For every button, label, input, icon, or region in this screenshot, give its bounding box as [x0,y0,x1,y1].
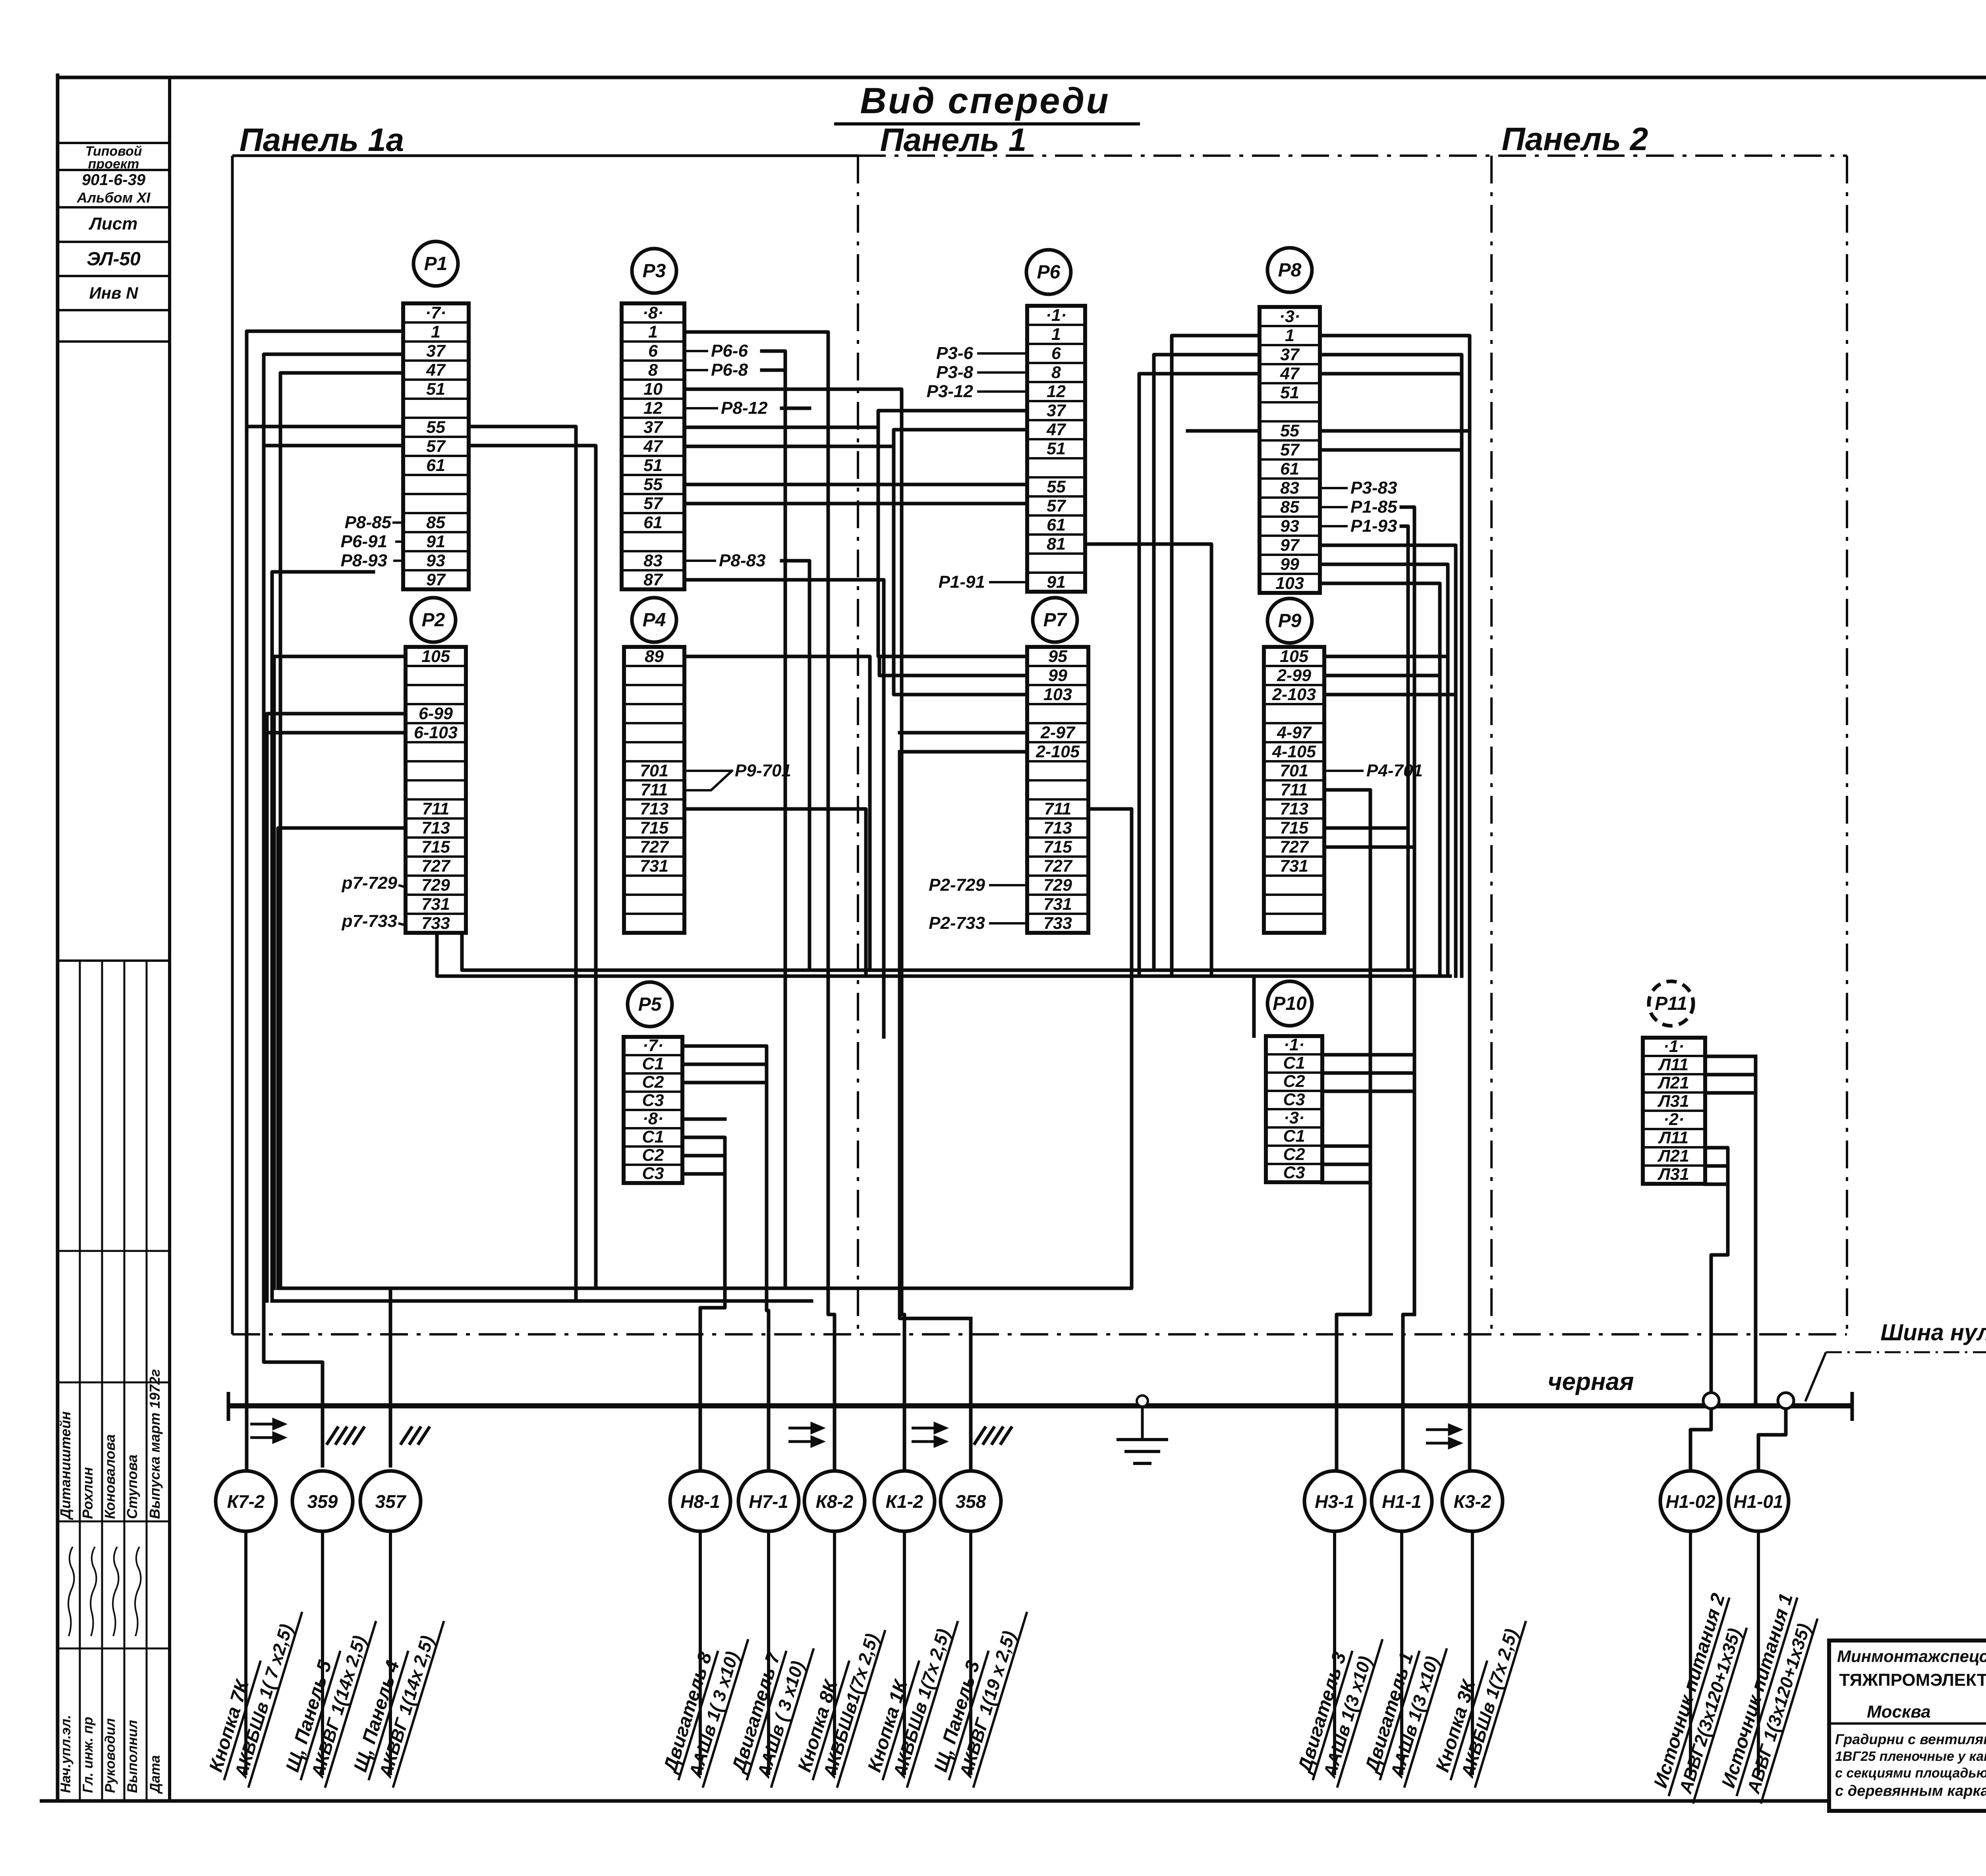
svg-text:8: 8 [1051,363,1061,382]
svg-text:99: 99 [1280,555,1299,574]
svg-text:711: 711 [1281,780,1308,799]
svg-text:Р6-91: Р6-91 [341,532,387,551]
svg-text:Р8-93: Р8-93 [341,551,387,570]
wire Р2 6-99 run [267,714,406,1301]
net label Р3-83 [1320,478,1397,498]
svg-text:1: 1 [1285,326,1294,345]
wire Р2-105 run [274,656,406,1288]
svg-text:733: 733 [1043,914,1072,933]
svg-text:713: 713 [1280,799,1308,818]
cable tail Н1-1 [1400,1531,1403,1775]
svg-text:81: 81 [1047,535,1066,554]
svg-text:Нач.упл.эл.: Нач.упл.эл. [58,1715,73,1793]
wire Р9 2-99 [1324,674,1440,677]
svg-text:Н1-01: Н1-01 [1733,1491,1783,1512]
wire 358 jog [900,752,971,1318]
net label Р1-85 [1320,497,1397,517]
cable tail К7-2 [244,1531,247,1775]
cable label 358 [928,1598,1027,1787]
svg-text:713: 713 [640,799,668,818]
designator circle Р9 [1267,598,1312,643]
panel 2 right boundary [1846,156,1848,1334]
svg-text:Л31: Л31 [1657,1092,1689,1111]
svg-text:Р11: Р11 [1655,993,1687,1014]
svg-text:Р5: Р5 [638,994,662,1015]
wire Р3-55 [684,483,1027,486]
svg-text:Л11: Л11 [1658,1055,1688,1074]
cable circle Н1-01 [1728,1471,1789,1531]
wire Р4-89 run [684,656,870,970]
svg-text:·7·: ·7· [643,1036,664,1055]
wire Р5-8 to Н8-1 [682,1137,725,1471]
title block [1829,1641,1986,1811]
cable tail Н7-1 [767,1531,770,1775]
svg-text:С2: С2 [1283,1145,1305,1164]
cable label К8-2 [792,1616,885,1787]
svg-text:2-99: 2-99 [1277,666,1311,685]
svg-text:51: 51 [1280,383,1299,402]
svg-text:Р7: Р7 [1043,610,1068,631]
svg-text:6: 6 [648,342,658,361]
cable circle 357 [360,1471,421,1531]
svg-text:Выпуска март 1972г: Выпуска март 1972г [147,1369,163,1519]
cable tail Н8-1 [699,1531,702,1775]
net label Р8-12 [684,398,768,418]
svg-text:с секциями площадью 16кв, М.: с секциями площадью 16кв, М. [1835,1766,1986,1781]
svg-text:2-105: 2-105 [1036,742,1080,761]
svg-text:Выполнил: Выполнил [125,1720,140,1793]
wire Р5 upper С1 [682,1063,767,1066]
svg-text:Р2-733: Р2-733 [929,913,985,933]
wire Р3-57 [684,502,1027,506]
wire Р8-37 drop [1320,355,1462,976]
cable circle 359 [292,1471,353,1531]
svg-text:10: 10 [643,380,663,399]
wire Р5-7 to Н7-1 [682,1046,769,1471]
svg-text:711: 711 [641,780,668,799]
svg-text:711: 711 [1044,799,1072,818]
svg-text:4-97: 4-97 [1277,723,1312,742]
svg-text:Л21: Л21 [1657,1073,1689,1092]
panel 1a boundary [232,156,858,1334]
svg-text:Р1-91: Р1-91 [939,572,985,592]
cable tail К1-2 [903,1531,906,1775]
svg-text:Панель 1: Панель 1 [880,122,1027,158]
panel 1 / panel 2 top boundary [858,154,1847,157]
svg-text:Гл. инж. пр: Гл. инж. пр [80,1717,96,1793]
designator circle Р4 [632,598,676,642]
svg-text:Дата: Дата [147,1755,163,1794]
svg-text:Р1-85: Р1-85 [1350,497,1397,517]
arrow marks К7-2 [250,1420,284,1442]
svg-text:37: 37 [643,418,663,437]
svg-text:83: 83 [1280,479,1299,498]
svg-text:105: 105 [421,647,450,666]
svg-text:Ступова: Ступова [124,1455,140,1519]
neutral bus (Шина нулевая) [228,1392,1852,1421]
svg-text:Р8-85: Р8-85 [345,513,392,532]
cable label Н1-02 [1648,1591,1754,1804]
svg-text:Р6-8: Р6-8 [711,360,748,380]
svg-text:715: 715 [1280,818,1309,838]
svg-text:55: 55 [1047,477,1066,496]
wire Р10 lower to Н3-1 [1322,1146,1370,1471]
cable tail 359 [321,1531,324,1775]
wire Р8 left r55 [1188,429,1260,433]
svg-text:Р8-12: Р8-12 [721,398,768,418]
cable circle К1-2 [874,1471,935,1531]
sidebar divider [168,77,171,1801]
wire long run lower [437,933,1450,976]
wire Р1-93 run [272,572,373,1301]
svg-text:Р3-8: Р3-8 [936,363,973,382]
svg-text:Р6: Р6 [1037,262,1061,283]
wire Р5 row8 stub [682,1117,725,1121]
svg-text:Рохлин: Рохлин [79,1467,96,1519]
svg-text:С1: С1 [642,1054,664,1073]
svg-text:Москва: Москва [1867,1702,1931,1722]
wire Р3-1 run [684,332,835,1471]
svg-text:черная: черная [1548,1368,1634,1395]
bus tap circle Н1-01 [1778,1393,1794,1409]
wire Р9 2-103 [1324,693,1456,697]
svg-text:711: 711 [422,799,450,818]
svg-text:93: 93 [1280,517,1299,536]
svg-text:С3: С3 [1283,1090,1305,1109]
net label Р3-12 [927,382,1027,401]
svg-text:Р3-6: Р3-6 [936,344,973,363]
cable tail Н1-01 [1757,1531,1760,1775]
svg-text:Р6-6: Р6-6 [711,341,748,361]
svg-text:47: 47 [426,361,446,380]
svg-text:Р3-12: Р3-12 [927,382,974,401]
svg-text:·1·: ·1· [1284,1035,1305,1054]
wire Р11 lower Л31 [1705,1183,1728,1186]
net label Р3-6 [936,344,1027,363]
svg-text:·8·: ·8· [643,303,664,322]
svg-text:731: 731 [640,857,668,876]
wire Р3-12 run [782,407,809,410]
title Вид спереди [834,81,1140,124]
cable label Н7-1 [726,1635,813,1787]
wire Р5 upper С2 [682,1081,767,1085]
designator circle Р2 [411,598,456,642]
svg-text:91: 91 [1047,573,1066,592]
wire Р5 lower С2 [682,1154,725,1158]
svg-text:с деревянным каркасом.: с деревянным каркасом. [1835,1783,1986,1799]
svg-text:51: 51 [426,380,445,399]
terminal block Р10 [1266,1035,1322,1182]
svg-text:729: 729 [1043,876,1072,895]
svg-text:·8·: ·8· [643,1109,664,1128]
svg-text:701: 701 [1280,761,1308,780]
svg-text:47: 47 [1280,364,1300,383]
cable tail 357 [389,1531,392,1775]
cable label Н1-01 [1716,1591,1822,1803]
svg-text:Дитаништейн: Дитаништейн [57,1411,73,1520]
net label Р9-701 [684,761,791,780]
cable label Н3-1 [1292,1625,1382,1787]
terminal block Р3 [622,303,684,589]
svg-text:·3·: ·3· [1284,1108,1305,1127]
svg-text:Минмонтажспецстрой СССР: Минмонтажспецстрой СССР [1837,1647,1986,1666]
svg-text:57: 57 [1047,496,1066,515]
svg-text:Р3: Р3 [643,261,666,282]
svg-text:С1: С1 [1283,1054,1305,1073]
terminal block Р7 [1027,647,1088,933]
wire Р1-37 to 359 riser [264,354,403,1466]
wire Р3-37 jog [684,411,1027,427]
cable circle 358 [941,1471,1001,1531]
svg-text:Панель 1а: Панель 1а [240,122,404,158]
svg-text:Л31: Л31 [1657,1165,1689,1184]
svg-text:проект: проект [88,156,139,172]
wire Р3-47 jog [684,430,1027,446]
hatch marks 357 [400,1426,430,1445]
wire Р6 right r81 [1085,544,1211,976]
wire Р4-713 run [684,809,866,976]
net label Р6-91 [341,532,403,551]
ground symbol [1117,1395,1168,1463]
cable tail Н1-02 [1689,1531,1692,1775]
wire Р10 top feed [1252,976,1256,1036]
designator circle Р6 [1026,250,1071,294]
designator circle Р1 [413,241,458,286]
svg-text:Панель 2: Панель 2 [1502,121,1648,157]
terminal block Р6 [1027,306,1085,592]
svg-text:727: 727 [640,838,669,857]
designator circle Р11 [1649,981,1693,1026]
svg-text:р7-729: р7-729 [342,873,398,893]
net label Р1-93 [1320,516,1397,536]
wire Р1-55 [247,425,403,428]
wire Р11 upper Л21 [1705,1073,1756,1077]
svg-text:37: 37 [1280,345,1300,364]
svg-text:47: 47 [643,437,663,456]
svg-text:733: 733 [421,914,450,933]
svg-text:6-103: 6-103 [414,723,458,742]
svg-text:Н3-1: Н3-1 [1315,1491,1354,1512]
svg-text:89: 89 [645,647,664,666]
frame border top [58,76,1986,79]
wire bottom run B [272,1299,811,1303]
svg-text:Р2-729: Р2-729 [929,875,985,895]
svg-text:Н8-1: Н8-1 [680,1491,720,1512]
wire Н1-02 drop [1690,1401,1711,1471]
net label Р2-729 [929,875,1027,895]
svg-text:61: 61 [1047,515,1066,535]
svg-text:Л21: Л21 [1657,1146,1689,1166]
wire Р11 lower to Н1-02 [1705,1148,1728,1401]
wire Р8-85 drop [1401,507,1414,1314]
svg-text:357: 357 [375,1491,407,1512]
wire Р2-713 run [278,828,406,1288]
cable tail К3-2 [1471,1531,1474,1775]
wire Р8-57 [1320,448,1462,452]
svg-text:Р9-701: Р9-701 [735,761,791,780]
wire Р1-47 long [280,373,403,1288]
svg-text:К1-2: К1-2 [886,1491,923,1512]
wire Р9-105 run [1324,655,1448,658]
svg-text:Альбом XI: Альбом XI [77,189,151,206]
wire Р7-95 [879,656,1027,676]
cable circle Н7-1 [738,1471,799,1531]
wire Р11 upper drop to bus [1754,1056,1758,1406]
svg-text:Р9: Р9 [1278,610,1302,631]
svg-text:Градирни с вентиляторами: Градирни с вентиляторами [1835,1731,1986,1747]
svg-text:Р10: Р10 [1273,993,1307,1014]
wire 358 riser [969,1318,973,1471]
terminal block Р9 [1264,647,1324,933]
net label р7-729 [342,873,406,893]
svg-text:731: 731 [1043,895,1072,914]
svg-text:85: 85 [1280,498,1300,517]
svg-text:57: 57 [643,494,663,513]
svg-text:Р8-83: Р8-83 [719,551,765,570]
cable tail 358 [969,1531,972,1775]
svg-text:К3-2: К3-2 [1454,1491,1491,1512]
svg-text:С1: С1 [1283,1127,1305,1146]
svg-text:51: 51 [1047,439,1066,458]
wire Р11 lower Л21 [1705,1164,1728,1168]
svg-text:Н1-1: Н1-1 [1382,1491,1422,1512]
cable circle К8-2 [804,1471,865,1531]
svg-text:37: 37 [1047,401,1066,420]
cable label К1-2 [862,1607,958,1787]
svg-text:1: 1 [1051,325,1061,344]
svg-text:358: 358 [956,1491,986,1512]
svg-text:93: 93 [426,551,445,570]
arrow marks К3-2 [1426,1425,1460,1448]
wire Р3-10 run [684,389,904,1471]
cable tail К8-2 [833,1531,836,1775]
wire long run upper [462,933,1414,970]
wire Н1-01 drop [1758,1401,1786,1471]
svg-text:715: 715 [421,838,450,857]
cable tail Н3-1 [1333,1531,1336,1775]
svg-text:103: 103 [1043,685,1072,704]
wire Р10 lower С2 [1322,1163,1370,1166]
svg-text:57: 57 [1280,440,1300,459]
designator circle Р5 [628,982,672,1027]
svg-text:85: 85 [426,513,446,532]
svg-text:6: 6 [1051,344,1061,363]
wire Р8-97 drop [1320,545,1456,976]
svg-text:99: 99 [1048,666,1067,685]
net label Р2-733 [929,913,1027,933]
svg-text:105: 105 [1280,647,1309,666]
net label Р3-8 [936,363,1027,382]
svg-text:727: 727 [1043,857,1073,876]
cable label 359 [280,1607,376,1787]
svg-text:713: 713 [421,818,450,838]
svg-text:715: 715 [640,818,669,838]
frame border left [56,73,60,1801]
svg-text:Коновалова: Коновалова [102,1434,118,1519]
svg-text:Шина нулевая: Шина нулевая [1880,1320,1986,1345]
wire Р2 6-103 run [267,731,406,735]
svg-text:55: 55 [1280,421,1300,440]
wire Р10 lower С3 [1322,1181,1370,1185]
svg-text:91: 91 [426,532,445,551]
svg-text:Н7-1: Н7-1 [749,1491,788,1512]
net label Р8-93 [341,551,403,570]
svg-text:83: 83 [643,551,663,570]
wire Р10 upper С2 [1322,1071,1414,1075]
net label Р1-91 [939,572,1027,592]
svg-text:Р4: Р4 [643,610,666,631]
wire Р5 lower С3 [682,1172,725,1176]
svg-text:Р2: Р2 [422,610,445,631]
designator circle Р3 [632,249,676,293]
wire Р6 riser [878,427,1027,656]
cable label 357 [348,1607,444,1787]
svg-text:61: 61 [643,513,663,532]
wire Р8-55 [1320,429,1470,433]
wire Р3-8 run [762,369,785,372]
svg-text:р7-733: р7-733 [342,911,397,931]
cable label К7-2 [203,1598,302,1787]
net label Р6-8 [684,360,748,380]
designator circle Р7 [1033,598,1077,642]
svg-text:12: 12 [1047,382,1066,401]
svg-text:1: 1 [431,322,440,342]
svg-text:4-105: 4-105 [1272,742,1316,761]
svg-text:8: 8 [648,361,658,380]
svg-text:·7·: ·7· [425,303,446,322]
panel divider 1/2 [1490,156,1493,1334]
svg-text:·1·: ·1· [1046,306,1067,325]
hatch marks 358 [974,1426,1012,1445]
svg-text:1: 1 [648,322,658,342]
svg-text:37: 37 [426,342,446,361]
wire Р11 upper Л31 [1705,1091,1756,1095]
wire Р3-87 run [684,580,884,1037]
svg-text:Вид спереди: Вид спереди [860,81,1110,121]
svg-text:55: 55 [643,475,663,494]
wire Р8-1 to К3-2 riser [1320,336,1470,1471]
wire Р10 upper to Н1-1 [1322,1055,1414,1471]
designator circle Р8 [1267,248,1312,292]
svg-text:61: 61 [1280,459,1299,479]
arrow marks К1-2 [912,1424,945,1446]
net label Р4-701 [1324,761,1423,780]
cable circle К3-2 [1442,1471,1503,1531]
sidebar stamp table [58,143,170,961]
wire Р10 upper С3 [1322,1090,1414,1093]
net label Р8-85 [345,513,403,532]
svg-text:715: 715 [1043,838,1072,857]
cable circle Н3-1 [1304,1471,1365,1531]
svg-text:ЭЛ-50: ЭЛ-50 [87,249,141,270]
svg-text:103: 103 [1275,574,1304,593]
net label Р6-6 [684,341,748,361]
wire Р7 2-97 [900,731,1027,735]
terminal block Р11 [1643,1037,1705,1184]
wire Р1-57 [264,444,403,448]
svg-text:61: 61 [426,456,445,475]
cable label Н8-1 [658,1625,748,1787]
wire Р1-1 to К7-2 riser [247,331,403,1471]
svg-text:К7-2: К7-2 [227,1491,265,1512]
panels bottom boundary [232,1333,1847,1336]
svg-text:2-97: 2-97 [1040,723,1076,742]
cable circle Н8-1 [670,1471,730,1531]
wire Р1 right r55 [469,427,576,1301]
svg-text:·2·: ·2· [1663,1110,1685,1129]
label Шина нулевая [1805,1320,1986,1401]
cable circle К7-2 [216,1471,276,1531]
